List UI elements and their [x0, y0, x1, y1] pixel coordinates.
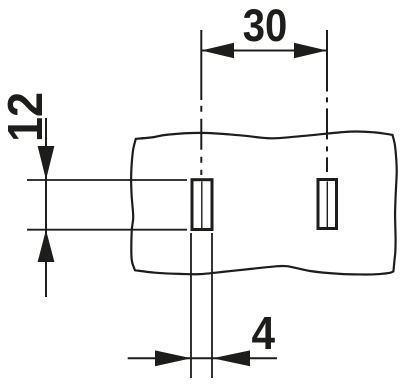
panel outline (broken-out section with wavy break edges) — [131, 131, 397, 274]
dimension 12: lower arrowhead (points up) — [38, 230, 55, 262]
centerline left: thin line through slot — [201, 182, 203, 229]
slot left (cut-out) — [192, 180, 212, 230]
dimension 30: dimension line — [201, 50, 327, 52]
centerline left: dash-dot part — [200, 106, 202, 175]
dimension 12: dimension line (vertical) — [45, 118, 47, 297]
centerline left: extension line (solid upper part) — [200, 30, 202, 100]
dimension 12: extension line bottom — [27, 229, 187, 231]
centerline right: dash-dot part — [326, 97, 328, 172]
svg-text:12: 12 — [0, 92, 54, 142]
dimension 12: upper arrowhead (points down) — [38, 146, 55, 180]
dimension 4: right arrowhead (points left) — [213, 350, 251, 366]
dimension 30: right arrowhead — [294, 43, 327, 59]
svg-text:4: 4 — [252, 308, 276, 359]
centerline right: extension line (solid upper part) — [326, 30, 328, 92]
centerline right: thin line through slot — [326, 182, 328, 229]
dimension 12: extension line top — [27, 179, 187, 181]
dimension 4: dimension line — [128, 357, 277, 359]
slot right (cut-out) — [318, 180, 337, 229]
dimension 4: left arrowhead (points right) — [155, 350, 191, 366]
dimension 4: extension line left — [190, 233, 192, 378]
dimension 30: left arrowhead — [201, 43, 234, 59]
dimension 4: extension line right — [211, 233, 213, 378]
svg-text:30: 30 — [243, 1, 288, 52]
